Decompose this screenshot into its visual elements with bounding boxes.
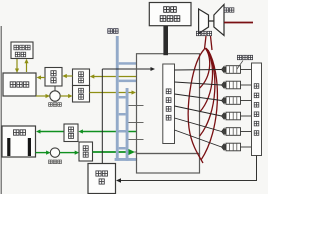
exhaust runner 4 — [201, 50, 217, 160]
fuel return collector->fuel tank — [120, 156, 257, 181]
dynamometer shaft — [163, 26, 168, 56]
exhaust outlet line — [224, 22, 253, 24]
intake manifold right rail — [126, 88, 129, 161]
high pressure fuel line 6 pump->injector 6 — [175, 130, 222, 147]
box: oil thermostat 温控 — [45, 68, 62, 87]
exhaust runner big left arc — [188, 49, 204, 163]
oil line engine->fine filter — [94, 76, 137, 78]
arrow heater->tank — [16, 59, 18, 69]
box: water pump 水泵 — [79, 142, 93, 161]
fuel supply line to injection pump — [102, 68, 150, 70]
connector thermostat-flowmeter — [54, 86, 56, 91]
injector 喷油器 1 — [222, 66, 225, 72]
engine block — [137, 54, 200, 154]
box: oil heater 机油加热器 — [11, 42, 33, 59]
intake manifold left rail — [116, 36, 119, 161]
turbo compressor — [199, 9, 209, 34]
box: fuel tank 燃油箱 — [88, 164, 116, 194]
box: oil tank 机油箱 — [3, 73, 36, 96]
exhaust bundle from turbine — [205, 36, 207, 49]
exhaust runner 3 — [200, 49, 215, 136]
flowmeter->water pump — [60, 152, 76, 154]
manifold bottom bar — [115, 158, 138, 161]
injector 喷油器 4 — [222, 113, 225, 119]
box: coarse filter 粗滤 — [73, 86, 90, 103]
turbo turbine — [214, 5, 224, 36]
manifold rung y=147 — [119, 147, 126, 150]
high pressure fuel line 1 pump->injector 1 — [175, 69, 222, 72]
label 排气 — [224, 8, 234, 12]
injector 喷油器 2 — [222, 82, 225, 88]
high pressure fuel line 3 pump->injector 3 — [175, 94, 222, 101]
intake port line y=122.5 — [129, 122, 144, 124]
fuel riser from fuel tank — [101, 69, 103, 164]
engine base box — [137, 154, 200, 174]
box: water thermostat 温控 — [64, 124, 78, 142]
high pressure fuel line 5 pump->injector 5 — [175, 118, 222, 132]
flowmeter->coarse filter — [60, 95, 69, 97]
injector 喷油器 6 — [222, 144, 225, 150]
injector 喷油器 5 — [222, 128, 225, 134]
water return line engine->thermostat->tank — [82, 131, 137, 133]
high pressure fuel line 2 pump->injector 2 — [175, 82, 222, 85]
manifold rung y=113 — [119, 113, 126, 116]
arrow tank->heater — [26, 63, 28, 73]
exhaust runner 1 — [200, 48, 210, 88]
box: fine filter 精滤 — [73, 69, 90, 86]
intake port line y=105.5 — [129, 105, 144, 107]
tank->flowmeter — [36, 95, 46, 97]
manifold rung y=130 — [119, 130, 126, 133]
water supply tank->flowmeter — [36, 152, 47, 154]
manifold rung y=79.6 — [119, 80, 136, 83]
manifold rung y=62.2 — [119, 62, 136, 64]
box: dynamometer 电力测功机 — [149, 3, 191, 26]
water supply pump->engine — [93, 151, 129, 153]
high pressure fuel line 4 pump->injector 4 — [175, 106, 222, 116]
water flow meter circle 流量计 — [50, 148, 59, 157]
label 增压器 — [196, 31, 211, 35]
intake air label 进气 — [108, 29, 118, 34]
box: spray collector 喷油收集装置 — [252, 63, 262, 156]
label 喷油器 + leader — [237, 55, 252, 59]
turbo shaft — [209, 20, 214, 22]
box: water tank 水箱 — [2, 126, 36, 157]
left page border — [0, 26, 2, 194]
box: high pressure pump 高压油泵 — [163, 64, 175, 144]
intake port line y=139.5 — [129, 139, 144, 141]
manifold rung y=96 — [119, 96, 126, 99]
tank electrodes — [7, 138, 10, 156]
exhaust runner 2 — [200, 48, 213, 112]
oil arrows left chain — [40, 77, 45, 79]
injector 喷油器 3 — [222, 97, 225, 103]
oil supply filter->engine — [90, 92, 133, 94]
oil flow meter circle 流量计 — [50, 91, 60, 101]
